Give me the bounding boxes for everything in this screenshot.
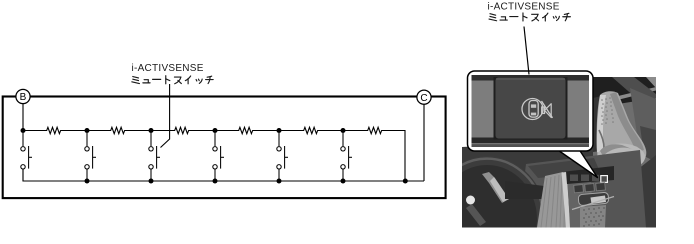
svg-text:B: B	[20, 92, 27, 103]
svg-text:i-ACTIVSENSE: i-ACTIVSENSE	[132, 63, 204, 74]
svg-text:C: C	[420, 93, 427, 104]
svg-text:i-ACTIVSENSE: i-ACTIVSENSE	[488, 1, 560, 12]
